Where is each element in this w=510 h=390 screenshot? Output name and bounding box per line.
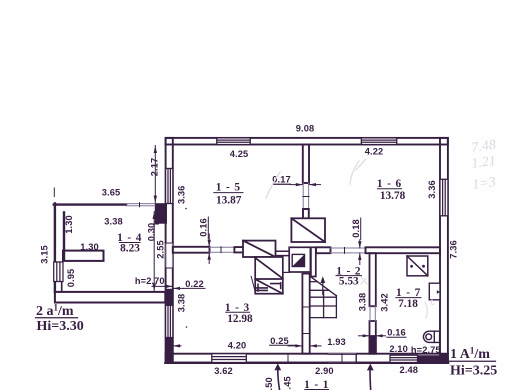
svg-text:2.17: 2.17 — [150, 158, 160, 177]
svg-text:13.87: 13.87 — [216, 194, 242, 206]
svg-text:3.38: 3.38 — [358, 293, 368, 312]
underline 0.17 — [273, 183, 291, 185]
dimension 0.16 arrows wall 1-5/1-3 — [208, 217, 211, 264]
svg-text:3.36: 3.36 — [177, 186, 187, 205]
svg-text:1.30: 1.30 — [64, 215, 74, 234]
svg-text:2 a1/m: 2 a1/m — [36, 303, 74, 320]
svg-text:2.55: 2.55 — [155, 240, 165, 259]
svg-text:3.65: 3.65 — [102, 188, 121, 198]
door opening in wall 1-5/1-6 — [303, 183, 309, 209]
fraction line title right — [449, 360, 496, 362]
svg-text:1.93: 1.93 — [327, 337, 346, 347]
annex wall bottom — [55, 292, 165, 303]
svg-text:3.38: 3.38 — [176, 294, 186, 313]
staircase up arrow — [320, 276, 325, 294]
svg-text:13.78: 13.78 — [380, 190, 406, 202]
wall interior vertical 1-5/1-6 — [303, 145, 309, 184]
wall exterior top — [166, 138, 448, 145]
svg-text:2.90: 2.90 — [315, 366, 334, 376]
door opening in wall 1-5/1-3 — [210, 247, 243, 253]
dimension 4.20 arrows room 1-3 — [173, 344, 181, 347]
svg-text:5.53: 5.53 — [339, 275, 359, 287]
svg-text:7.18: 7.18 — [398, 298, 418, 310]
window W5 right wall room 1-6 — [440, 179, 448, 216]
annex door opening top wall — [126, 203, 155, 207]
fraction line title left — [36, 317, 78, 319]
svg-text:1 - 3: 1 - 3 — [225, 302, 250, 314]
dimension 0.25 arrows wall 1-3/1-1 — [270, 344, 322, 347]
underline label 1-5 — [214, 192, 243, 194]
svg-text:9.08: 9.08 — [296, 124, 315, 134]
door opening left wall between 1-4 and 1-3 — [166, 243, 173, 268]
speck below 13.87 — [185, 208, 187, 210]
dimension 0.18 arrows wall 1-6/1-2 — [358, 218, 361, 265]
dimension tick 3.65 left end — [53, 188, 55, 197]
svg-text:3.38: 3.38 — [104, 217, 123, 227]
entrance arrow right — [367, 364, 374, 390]
svg-text:12.98: 12.98 — [227, 313, 253, 325]
entrance arrow left — [274, 363, 281, 390]
svg-text:2.48: 2.48 — [400, 365, 419, 375]
svg-text:1 - 5: 1 - 5 — [216, 181, 241, 193]
junction block left wall at annex bottom — [165, 289, 174, 306]
dimension 0.22 arrow left wall room 1-3 — [173, 287, 205, 290]
pencil mark near 1-5 — [266, 172, 280, 198]
flue damper marks — [255, 283, 280, 291]
svg-text:1.21: 1.21 — [470, 154, 496, 172]
svg-text:0.95: 0.95 — [66, 269, 76, 288]
window W7 bottom wall room 1-7 — [390, 355, 418, 362]
junction block left wall at annex top — [155, 203, 167, 224]
svg-text:0.25: 0.25 — [270, 336, 289, 346]
svg-text:0.22: 0.22 — [185, 279, 204, 289]
svg-text:8.23: 8.23 — [120, 242, 140, 254]
svg-text:0.16: 0.16 — [199, 218, 209, 237]
window W1 top wall left — [217, 138, 250, 145]
wall interior vertical 1-2/1-7 — [370, 253, 376, 354]
door opening in wall 1-2/1-7 — [370, 306, 375, 321]
wall interior horizontal 1-6/1-7 — [366, 247, 441, 253]
svg-text:h=2.70: h=2.70 — [135, 276, 165, 286]
annex wall left — [55, 203, 62, 292]
svg-text:0.16: 0.16 — [387, 328, 406, 338]
svg-text:0.18: 0.18 — [351, 219, 361, 238]
underline label 1-2 — [336, 275, 362, 277]
svg-text:1 - 6: 1 - 6 — [377, 178, 402, 190]
wall interior horizontal 1-5/1-3 solid part — [173, 247, 210, 253]
wall exterior bottom — [165, 354, 448, 363]
underline label 1-3 — [226, 311, 250, 313]
annex partition horizontal bar — [63, 251, 104, 261]
corner block bottom-right — [418, 354, 448, 363]
underline label 1-4 — [120, 242, 141, 244]
svg-text:1 A1/m: 1 A1/m — [450, 346, 490, 363]
dimension h=2.70 arrow — [152, 285, 173, 288]
annex partition vertical — [63, 212, 65, 260]
chimney inner square with black triangle — [292, 254, 304, 266]
toilet room 1-7 — [423, 331, 439, 342]
chimney niche white box — [289, 247, 310, 272]
window W2 top wall right — [361, 138, 396, 145]
staircase — [310, 276, 337, 317]
svg-text:1=3: 1=3 — [471, 175, 496, 193]
svg-text:4.22: 4.22 — [365, 147, 384, 157]
svg-text:3.15: 3.15 — [39, 245, 49, 264]
wall interior vertical 1-3/1-1 — [302, 274, 309, 354]
underline label 1-7 — [396, 297, 421, 299]
svg-text:1.50: 1.50 — [264, 377, 274, 390]
window W4 left wall room 1-3 — [166, 305, 173, 337]
boiler on right wall room 1-7 — [429, 283, 440, 300]
window W6 bottom wall room 1-3 — [212, 354, 247, 363]
dimension 0.17 arrows wall 1-5/1-6 — [273, 183, 321, 186]
wall exterior right — [440, 138, 448, 363]
svg-text:1.45: 1.45 — [283, 376, 293, 390]
corner block bottom-left — [165, 338, 173, 363]
svg-text:3.36: 3.36 — [427, 180, 437, 199]
wall stub between furnace and chimney niche — [276, 251, 290, 255]
svg-text:1.30: 1.30 — [80, 242, 99, 252]
entrance door opening bottom wall — [328, 354, 356, 363]
svg-text:3.42: 3.42 — [379, 293, 389, 312]
svg-text:h=2.75: h=2.75 — [411, 345, 441, 355]
gas stove room 1-7 — [407, 256, 428, 276]
speck below 12.98 — [186, 326, 188, 328]
wall right of chimney niche — [311, 247, 316, 276]
wall interior horizontal 1-6/1-2 — [316, 247, 331, 253]
svg-text:7.36: 7.36 — [448, 240, 458, 259]
furnace F1 between 1-5 and 1-3 — [243, 241, 276, 257]
flue box below furnace F1 — [255, 257, 283, 294]
wall exterior left — [166, 138, 173, 363]
annex window W8 — [54, 262, 63, 282]
svg-text:0.30: 0.30 — [147, 223, 157, 242]
dimension line 2.17/0.30/2.55 left of house — [150, 146, 159, 292]
window W3 left wall room 1-5 — [166, 169, 173, 204]
svg-text:4.20: 4.20 — [228, 340, 247, 350]
underline label 1-6 — [378, 188, 402, 190]
wall stub left of furnace — [234, 247, 242, 252]
wall stub above furnace 2 — [303, 209, 309, 219]
door opening in wall 1-6/1-2 — [331, 248, 366, 254]
svg-text:3.62: 3.62 — [214, 366, 233, 376]
annex wall top — [54, 203, 126, 205]
dimension 0.16 arrows wall 1-2/1-7 bottom — [359, 334, 407, 337]
svg-text:Hi=3.30: Hi=3.30 — [37, 319, 84, 334]
svg-text:4.25: 4.25 — [230, 149, 249, 159]
furnace F2 between 1-6 and 1-2 — [291, 218, 325, 242]
svg-text:Hi=3.25: Hi=3.25 — [450, 364, 497, 379]
svg-text:1 - 1: 1 - 1 — [304, 379, 329, 390]
pencil mark near 7.18 — [425, 300, 434, 318]
pencil mark near 5.53 — [361, 277, 367, 284]
pencil mark near 1-6 — [350, 159, 366, 184]
svg-text:2.10: 2.10 — [389, 344, 408, 354]
furnace door swing line — [251, 277, 255, 294]
underline label 1-1 — [305, 389, 329, 390]
connector flue to chimney — [283, 271, 289, 273]
